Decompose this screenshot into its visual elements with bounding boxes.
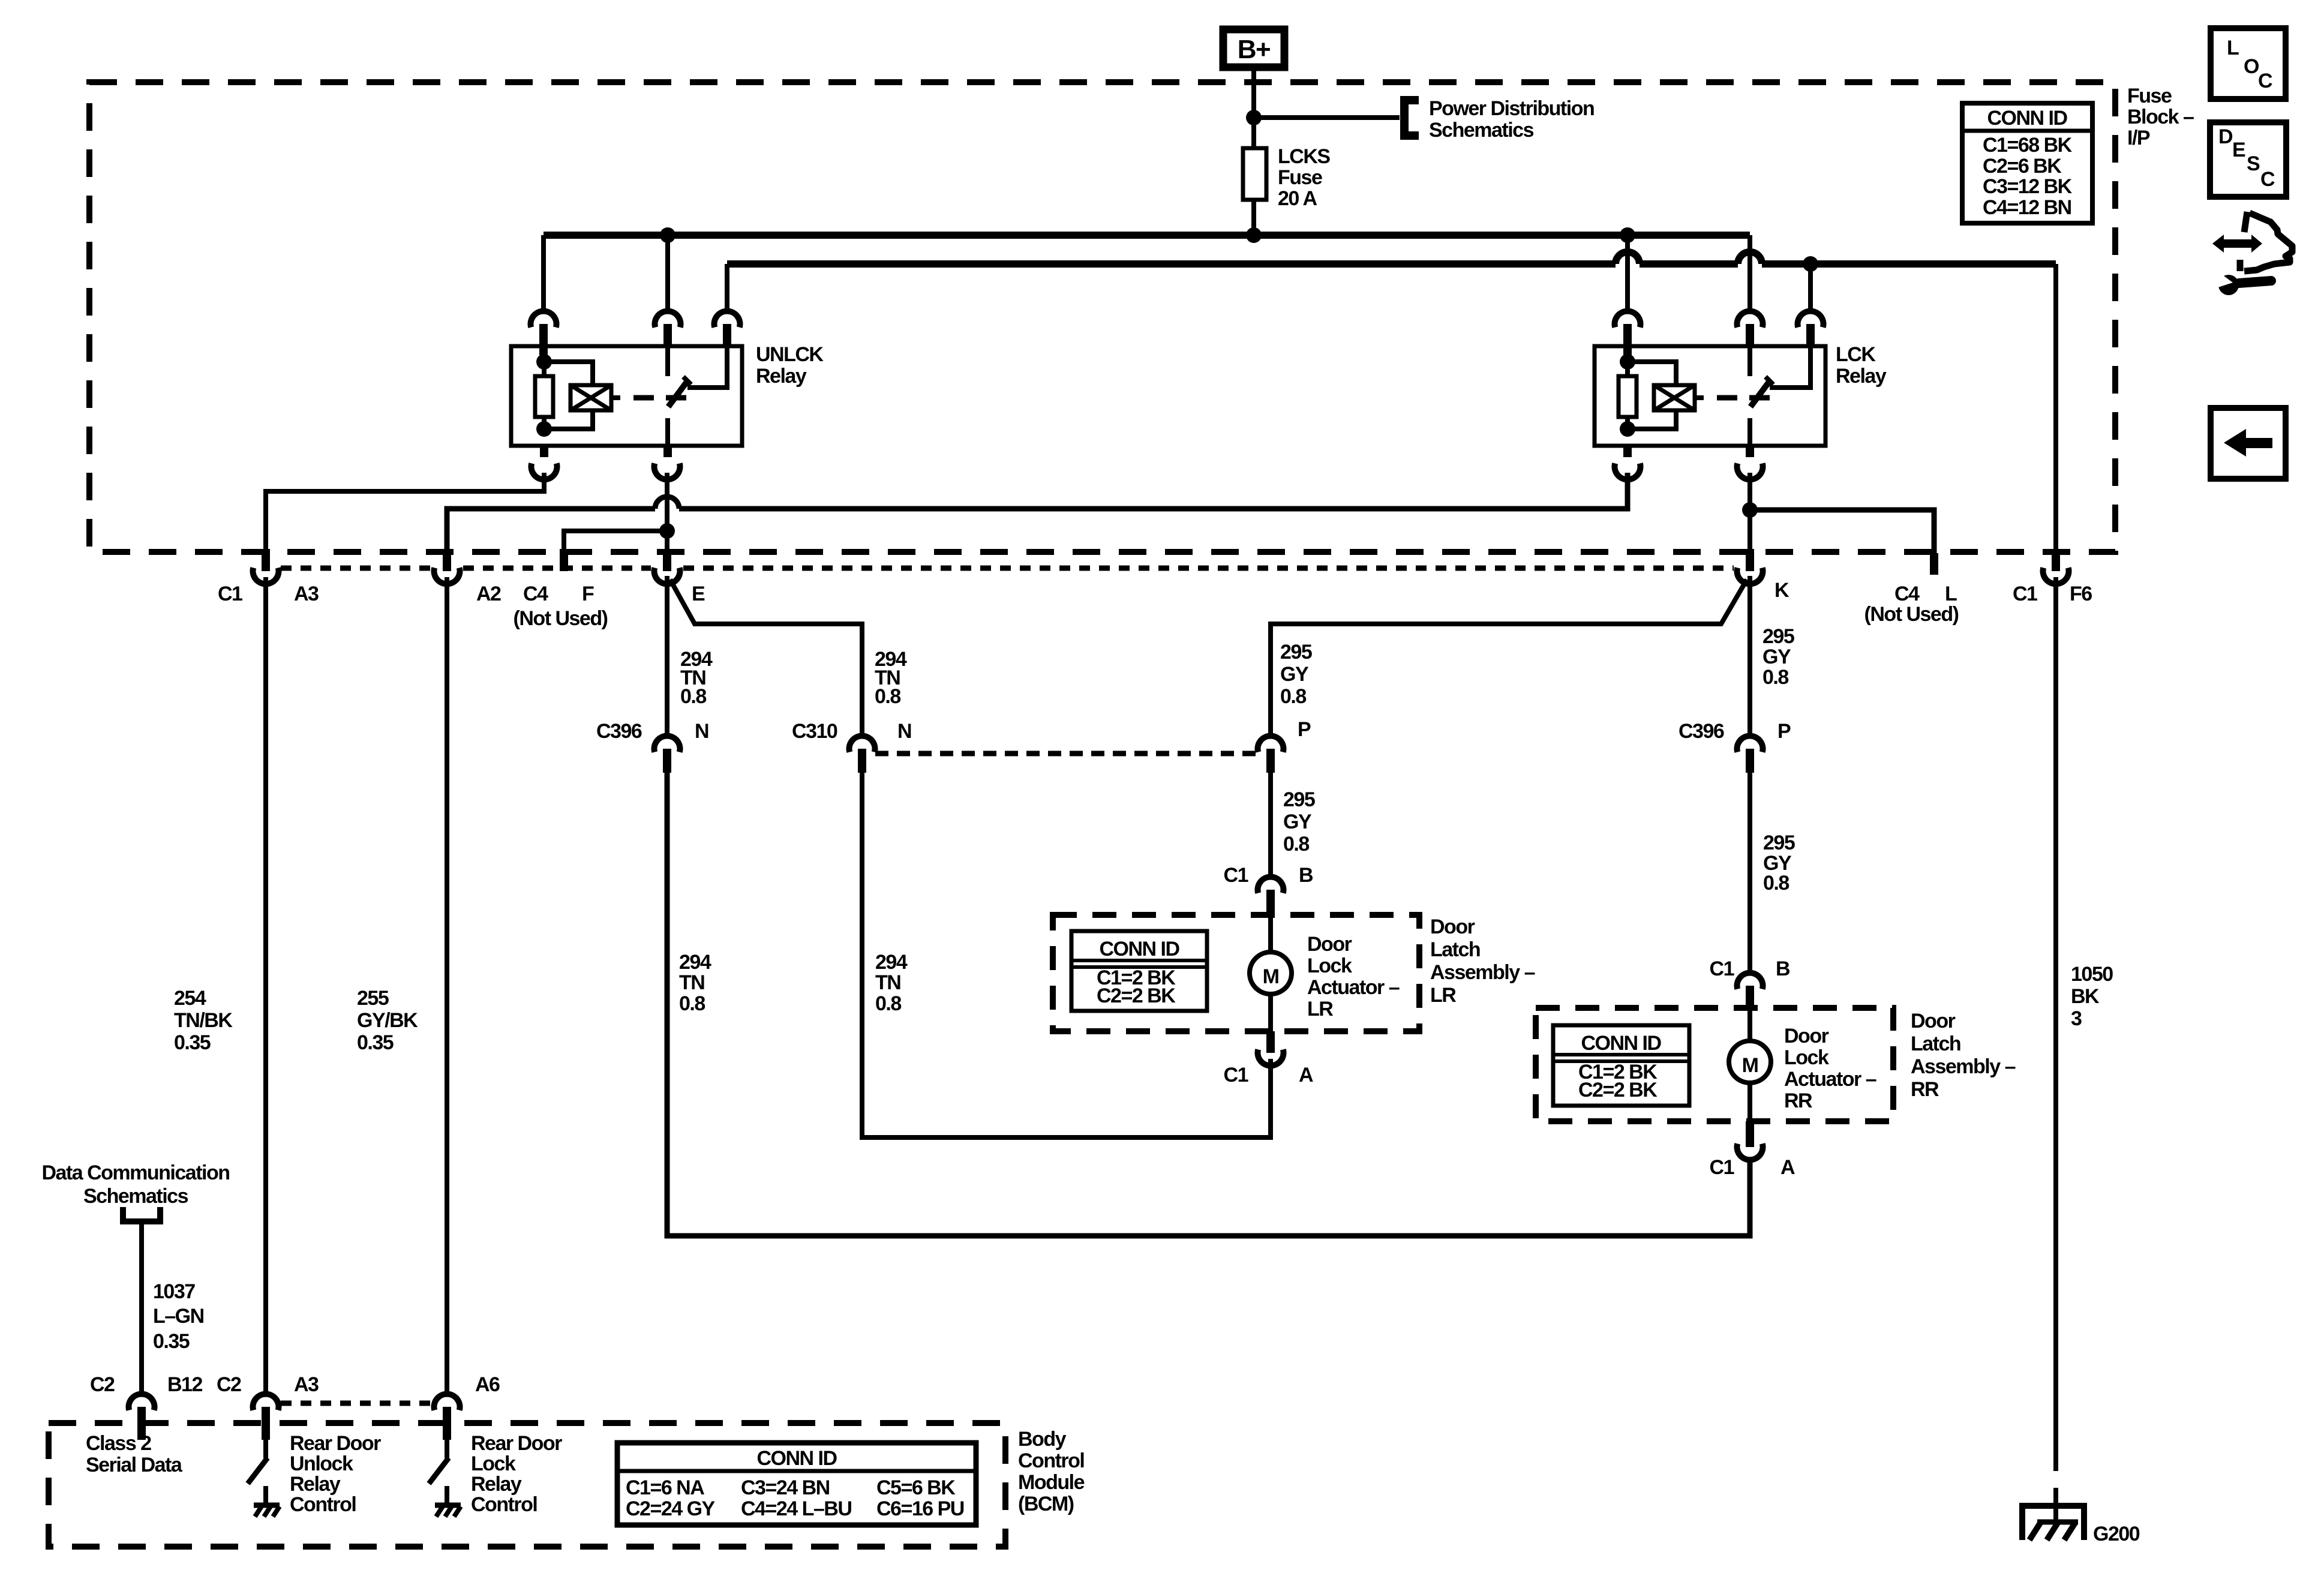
label C396 N [596,720,708,743]
svg-text:295: 295 [1283,788,1315,811]
svg-text:B12: B12 [167,1373,202,1396]
svg-text:GY: GY [1280,663,1309,686]
lck coil feed [1623,346,1632,355]
wire from B+ [1251,71,1256,148]
svg-text:TN/BK: TN/BK [174,1009,233,1032]
svg-text:Body: Body [1018,1428,1067,1451]
wire bus to unlck contact pin [725,264,729,313]
svg-text:E: E [2232,139,2245,161]
label LCKS fuse [1278,145,1330,210]
conn id table LR [1071,931,1207,1011]
svg-text:D: D [2218,125,2233,148]
wire label 295 GY 0.8 branch [1280,641,1312,708]
coil (solenoid) lck [1654,385,1704,410]
battery B+ terminal [1223,29,1284,67]
actuation dashed link lck [1717,395,1770,401]
svg-text:TN: TN [875,971,900,994]
svg-text:Control: Control [471,1493,537,1516]
svg-text:C3=12 BK: C3=12 BK [1983,175,2073,198]
svg-text:20 A: 20 A [1278,187,1317,210]
wire bus to lck coil pin [1625,235,1630,313]
wire hop at lck coil [1616,252,1640,264]
label door lock actuator RR [1784,1025,1876,1112]
svg-text:C5=6 BK: C5=6 BK [876,1476,956,1499]
svg-text:1037: 1037 [153,1280,195,1303]
svg-text:C1: C1 [1224,1064,1248,1086]
svg-text:LCKS: LCKS [1278,145,1330,168]
pin K fuse block: blade [1746,549,1754,571]
svg-text:Relay: Relay [471,1473,522,1496]
svg-text:0.8: 0.8 [679,992,705,1015]
wire label 1050 BK 3 [2071,963,2113,1030]
svg-text:A3: A3 [294,1373,319,1396]
wire E branch diagonal [670,580,862,737]
svg-text:P: P [1298,718,1311,741]
svg-text:P: P [1777,720,1791,743]
svg-text:Assembly –: Assembly – [1911,1055,2016,1078]
svg-text:A3: A3 [294,583,319,605]
svg-text:LR: LR [1430,984,1456,1007]
svg-text:C2=24 GY: C2=24 GY [626,1497,716,1520]
wire label 1037 L-GN 0.35 [153,1280,204,1353]
svg-text:BK: BK [2071,985,2100,1008]
svg-text:CONN ID: CONN ID [1099,938,1179,960]
wire bus to lck contact pin [1808,264,1813,313]
svg-text:Control: Control [290,1493,356,1516]
dotted connector C2 line [281,1401,431,1406]
svg-text:0.8: 0.8 [875,685,900,708]
wire A3 to BCM [263,577,268,1395]
svg-text:255: 255 [357,987,389,1010]
svg-text:A2: A2 [476,583,501,605]
connector lck pole bottom [1737,463,1763,479]
door latch assembly RR dashed box [1536,1008,1893,1121]
label data communication schematics [41,1161,229,1208]
label door lock actuator LR [1307,933,1400,1020]
label UNLCK relay [756,343,824,388]
resistor unlck [535,362,553,429]
svg-text:(Not Used): (Not Used) [1864,603,1959,626]
label door latch assembly LR [1430,915,1535,1007]
wire lck coil to A2 with hop at E wire [447,473,1628,549]
svg-text:Block –: Block – [2127,106,2194,128]
svg-text:Door: Door [1430,915,1475,938]
wire fuse to bus [1251,200,1256,235]
icon LOC box [2211,28,2286,99]
svg-text:Rear Door: Rear Door [290,1432,381,1455]
wire unlck pole down [665,473,669,552]
label LCK relay [1836,343,1887,388]
connector C1 A2 [434,568,460,584]
svg-text:Class 2: Class 2 [86,1432,151,1455]
wire label 295 GY 0.8 to LR [1283,788,1315,855]
svg-text:Fuse: Fuse [1278,166,1322,189]
BCM dashed border [49,1423,1005,1547]
svg-text:254: 254 [174,987,206,1010]
motor RR door lock actuator [1729,1008,1771,1121]
svg-text:GY: GY [1283,810,1312,833]
wire label 295 GY 0.8 circuit K [1762,625,1794,689]
svg-text:A: A [1780,1156,1795,1179]
svg-text:B: B [1776,957,1790,980]
svg-text:Door: Door [1784,1025,1829,1047]
wire lck coil bypass bottom [1628,410,1676,429]
node bus-lck coil [1620,227,1635,243]
lck coil return blade [1623,446,1632,457]
wire tee to L stub [1750,510,1934,555]
wire lck coil bypass top [1628,362,1676,385]
node lck coil bottom [1620,421,1635,437]
conn id table fuse block [1962,103,2092,223]
svg-text:Schematics: Schematics [1429,119,1534,142]
LR A blade [1266,1031,1275,1053]
svg-text:A: A [1299,1064,1313,1086]
svg-text:0.8: 0.8 [1280,685,1306,708]
conn id table BCM [617,1443,976,1525]
node bus-unlck pole [660,227,675,243]
svg-text:Door: Door [1911,1010,1956,1032]
svg-text:C310: C310 [792,720,837,743]
upper supply bus [544,232,1750,239]
connector lck pin 2 [1737,311,1763,346]
svg-text:(Not Used): (Not Used) [514,607,608,630]
svg-text:GY/BK: GY/BK [357,1009,418,1032]
door latch assembly LR dashed box [1053,915,1419,1031]
svg-text:C1: C1 [1710,957,1734,980]
wire label 295 GY 0.8 to RR [1763,831,1795,894]
lck pole bottom blade [1746,446,1754,457]
svg-text:CONN ID: CONN ID [1581,1032,1661,1055]
svg-text:C6=16 PU: C6=16 PU [876,1497,964,1520]
actuation dashed link unlck [633,395,686,401]
connector BCM C2 A3 [253,1394,279,1440]
pin A2 fuse block: blade [443,549,451,571]
pin F not used: blade [560,549,568,571]
svg-text:F6: F6 [2070,583,2092,605]
svg-text:B+: B+ [1238,35,1270,64]
off-page bracket data comm [123,1207,160,1221]
switch rear door lock relay control [429,1440,449,1503]
wire bus to lck pole pin [1747,235,1752,313]
svg-text:C396: C396 [1679,720,1724,743]
icon hand with double arrow and wrench [2212,212,2292,295]
label C1 A3 [218,583,319,605]
svg-text:Door: Door [1307,933,1352,956]
label C4 L not used [1864,583,1959,626]
RR A blade [1746,1121,1754,1147]
label rear door unlock relay control [290,1432,381,1516]
label C396 P [1679,720,1791,743]
wire class 2 serial data [139,1221,144,1395]
svg-text:C2=2 BK: C2=2 BK [1578,1079,1658,1101]
pin L not used: blade [1930,553,1938,575]
pin F6 fuse block: blade [2052,550,2060,571]
svg-text:C1: C1 [1710,1156,1734,1179]
connector unlck pin 3 [714,311,740,346]
wire bus to unlck pole pin [665,235,670,313]
svg-text:0.35: 0.35 [357,1031,394,1054]
svg-text:C1=68 BK: C1=68 BK [1983,134,2073,157]
connector unlck pin 2 [655,311,681,346]
svg-text:RR: RR [1784,1089,1812,1112]
ground G200 [2019,1503,2087,1540]
svg-text:A6: A6 [475,1373,500,1396]
connector unlck pole bottom [654,463,680,479]
svg-text:294: 294 [875,951,908,974]
svg-text:0.8: 0.8 [875,992,901,1015]
lower supply bus with hops [727,260,2056,268]
label C2 B12 [90,1373,202,1396]
svg-text:Assembly –: Assembly – [1430,961,1535,984]
svg-text:(BCM): (BCM) [1018,1493,1074,1515]
svg-text:M: M [1263,965,1279,988]
svg-text:C2: C2 [90,1373,115,1396]
svg-text:Actuator –: Actuator – [1784,1068,1876,1091]
unlck coil return blade [540,446,548,457]
label C2 A3 [217,1373,319,1396]
connector unlck coil return [532,463,557,479]
label LR C1 B [1224,864,1313,887]
svg-text:3: 3 [2071,1007,2082,1030]
label power distribution schematics [1429,97,1594,142]
wire K down [1747,576,1752,737]
connector C310 P [1258,736,1284,773]
svg-text:N: N [897,720,911,743]
svg-text:C: C [2260,168,2275,191]
svg-text:C4: C4 [523,583,548,605]
svg-text:LCK: LCK [1836,343,1876,366]
label C310 N [792,720,911,743]
label rear door lock relay control [471,1432,562,1516]
conn id table RR [1553,1025,1689,1106]
svg-text:C1=6 NA: C1=6 NA [626,1476,704,1499]
svg-text:GY: GY [1762,646,1791,668]
wire unlck coil bypass top [544,362,593,385]
wire C396 P to RR B [1747,773,1752,974]
label RR C1 A [1710,1156,1795,1179]
connector LR C1 B [1258,877,1284,915]
svg-text:Lock: Lock [471,1452,516,1475]
svg-text:F: F [582,583,594,605]
svg-text:L: L [1945,583,1957,605]
svg-text:295: 295 [1763,831,1795,854]
svg-text:M: M [1742,1054,1758,1077]
svg-text:Module: Module [1018,1471,1085,1494]
label RR C1 B [1710,957,1790,980]
node E tee [659,523,675,539]
svg-text:B: B [1299,864,1313,887]
svg-text:Data Communication: Data Communication [41,1161,229,1184]
label C4 F not used [514,583,608,630]
svg-text:C4: C4 [1894,583,1920,605]
svg-text:0.8: 0.8 [1762,666,1788,689]
relay UNLCK box [511,346,742,446]
label C1 F6 [2013,583,2092,605]
node: B+ junction [1246,110,1262,125]
svg-text:C: C [2258,70,2272,92]
wire E down [665,576,669,737]
svg-text:I/P: I/P [2127,127,2150,149]
svg-text:C1: C1 [1224,864,1248,887]
svg-text:Latch: Latch [1430,938,1480,961]
svg-text:CONN ID: CONN ID [756,1447,837,1470]
wire bus to unlck coil pin [541,235,546,313]
svg-text:Lock: Lock [1307,954,1352,977]
switch rear door unlock relay control [248,1440,268,1503]
unlck coil feed [539,346,548,355]
svg-text:L: L [2227,37,2239,59]
svg-text:UNLCK: UNLCK [756,343,824,366]
wire label 294 TN 0.8 circuit E [680,648,713,708]
wire lck pole down [1747,473,1752,552]
svg-text:Serial Data: Serial Data [86,1454,183,1476]
svg-text:C2=2 BK: C2=2 BK [1097,984,1176,1007]
wire label 294 TN 0.8 lower branch [875,951,908,1015]
svg-text:CONN ID: CONN ID [1987,107,2067,130]
node lower bus to lck contact [1803,256,1818,272]
svg-text:C2=6 BK: C2=6 BK [1983,155,2062,178]
svg-text:N: N [695,720,708,743]
ground BCM lock [435,1505,461,1517]
node lck coil top [1620,354,1635,370]
off-page bracket power distribution [1404,100,1419,136]
svg-text:C1: C1 [218,583,242,605]
connector C1 A3 [253,568,279,584]
connector C1 E [654,568,680,584]
svg-text:S: S [2247,152,2260,175]
connector LR C1 A [1258,1049,1284,1065]
dotted connector C1 line left [281,566,1734,571]
motor LR door lock actuator [1250,915,1292,1031]
wire unlck coil to A3 [266,473,544,552]
svg-text:Actuator –: Actuator – [1307,976,1400,999]
wire RR A return [667,773,1750,1236]
node unlck coil top [536,354,552,370]
icon back arrow box [2211,408,2286,479]
wire label 294 TN 0.8 branch [875,648,907,708]
connector C1 K [1737,568,1763,584]
wire label 255 GY/BK 0.35 [357,987,418,1054]
label body control module BCM [1018,1428,1085,1515]
svg-text:0.35: 0.35 [153,1330,190,1353]
label LR C1 A [1224,1064,1313,1086]
svg-text:C1: C1 [2013,583,2037,605]
fuse block label [2127,85,2194,149]
svg-text:0.8: 0.8 [1283,833,1309,855]
icon DESC box [2210,122,2286,197]
unlck pole bottom blade [663,446,672,457]
svg-text:O: O [2244,55,2259,78]
svg-text:RR: RR [1911,1078,1939,1101]
svg-text:Fuse: Fuse [2127,85,2172,107]
node unlck coil bottom [536,421,552,437]
connector C396 P [1737,736,1763,773]
wire LR A return [862,773,1271,1137]
svg-text:Latch: Latch [1911,1032,1960,1055]
svg-text:Lock: Lock [1784,1046,1829,1069]
svg-text:L–GN: L–GN [153,1305,204,1328]
svg-text:0.35: 0.35 [174,1031,211,1054]
connector RR C1 A [1737,1143,1763,1160]
connector RR C1 B [1737,973,1763,1008]
connector lck coil return [1615,463,1641,479]
connector lck pin 3 [1798,311,1824,346]
connector BCM C2 B12 [129,1394,155,1440]
wire lower bus to F6 [2053,264,2058,552]
connector lck pin 1 [1615,311,1641,346]
svg-text:295: 295 [1762,625,1794,648]
pin E fuse block: blade [663,549,671,571]
connector unlck pin 1 [531,311,557,346]
svg-text:LR: LR [1307,998,1333,1020]
connector C396 N [654,736,680,773]
svg-text:Power Distribution: Power Distribution [1429,97,1594,120]
svg-text:E: E [692,583,705,605]
svg-text:Rear Door: Rear Door [471,1432,562,1455]
label class 2 serial data [86,1432,183,1476]
svg-text:TN: TN [679,971,704,994]
svg-text:Relay: Relay [290,1473,341,1496]
svg-text:C396: C396 [596,720,642,743]
pin A3 fuse block: blade [262,549,270,571]
svg-text:K: K [1774,579,1789,602]
wire K branch diagonal [1271,580,1747,737]
svg-text:G200: G200 [2093,1523,2140,1545]
resistor lck [1619,362,1637,429]
wire C310 P to LR B [1268,773,1273,879]
svg-text:294: 294 [679,951,711,974]
fuse block dashed border [89,82,2115,552]
wire hop at lck pole [1738,252,1762,264]
wire F6 to ground [2053,577,2058,1522]
wire label 294 TN 0.8 lower E [679,951,711,1015]
svg-text:C2: C2 [217,1373,241,1396]
svg-text:295: 295 [1280,641,1312,664]
relay LCK box [1595,346,1825,446]
wire tee to F stub [564,531,667,549]
switch unlck [668,346,727,446]
svg-text:Unlock: Unlock [290,1452,353,1475]
node K tee [1742,502,1758,518]
svg-text:Relay: Relay [1836,365,1887,388]
connector C1 F6 [2043,568,2069,584]
svg-text:Relay: Relay [756,365,807,388]
svg-text:0.8: 0.8 [1763,872,1789,894]
wire A2 to BCM [445,577,449,1395]
coil (solenoid) unlck [571,385,620,410]
svg-text:Schematics: Schematics [83,1185,188,1208]
svg-text:C4=24 L–BU: C4=24 L–BU [741,1497,851,1520]
wire label 254 TN/BK 0.35 [174,987,233,1054]
svg-text:0.8: 0.8 [680,685,706,708]
switch lck [1750,346,1810,446]
connector C310 N [849,736,875,773]
node bus-fuse [1246,227,1262,243]
svg-text:C3=24 BN: C3=24 BN [741,1476,830,1499]
connector BCM A6 [434,1394,460,1440]
svg-text:Control: Control [1018,1449,1084,1472]
svg-text:1050: 1050 [2071,963,2113,986]
fuse LCKS 20A [1243,148,1266,200]
label door latch assembly RR [1911,1010,2016,1101]
ground BCM unlock [254,1505,280,1517]
svg-text:C4=12 BN: C4=12 BN [1983,196,2071,219]
wire to power distribution reference [1254,115,1400,120]
dashed link C310 N to P [875,751,1257,757]
wire unlck coil bypass bottom [544,410,593,429]
